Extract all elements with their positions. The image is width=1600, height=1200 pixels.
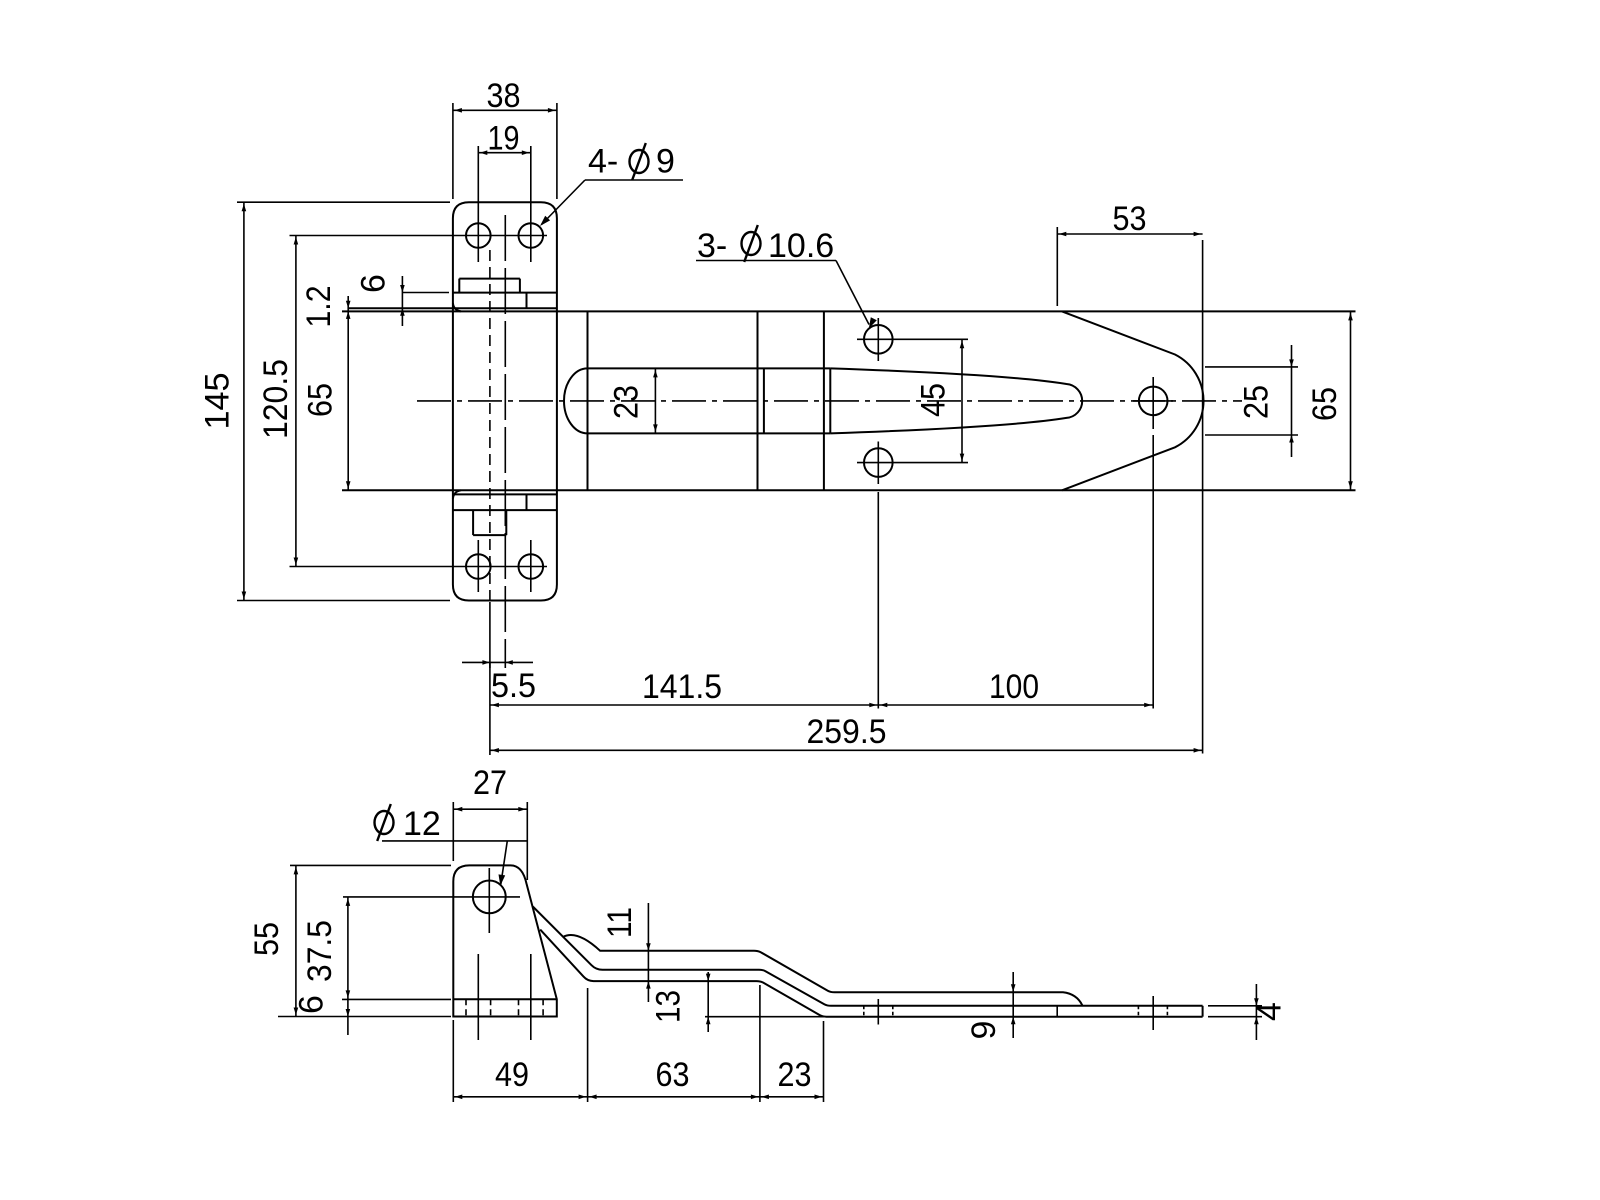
leader arrow phi12	[499, 874, 506, 885]
ext 13 bottom	[705, 1016, 824, 1018]
svg-text:23: 23	[608, 385, 646, 419]
right hole centerline side	[1152, 996, 1154, 1030]
ext line 25 top	[1205, 366, 1298, 368]
strap top edge	[342, 310, 1356, 312]
ext 63/23	[759, 985, 761, 1102]
leader arrow 4-phi9	[540, 216, 550, 226]
dim line 13	[707, 972, 709, 1032]
ext 4 bottom	[1208, 1016, 1262, 1018]
knuckle step right edge	[519, 279, 521, 293]
svg-text:65: 65	[302, 383, 340, 417]
extension for 100 dim	[1152, 435, 1154, 709]
dim line 19	[478, 152, 531, 154]
pin step right edge	[505, 510, 507, 535]
svg-text:120.5: 120.5	[257, 359, 295, 439]
ext 27 left	[452, 802, 454, 861]
ext 55/6 bottom	[278, 1016, 451, 1018]
ext 49/63	[587, 988, 589, 1102]
right hole vertical centerline	[1152, 377, 1154, 429]
dim line 120.5	[295, 236, 297, 567]
right hole horizontal centerline	[1133, 400, 1173, 402]
svg-text:6: 6	[293, 995, 331, 1014]
svg-text:45: 45	[915, 383, 953, 417]
ext 49 left	[452, 1020, 454, 1102]
underline 3-phi10.6	[696, 260, 836, 262]
svg-text:4-: 4-	[588, 143, 618, 181]
dim line 145	[243, 202, 245, 600]
strap hole centerline side	[877, 999, 879, 1025]
dim line 6	[401, 276, 403, 326]
bracket hole (phi12)	[473, 881, 506, 914]
plate hole top-right (phi9)	[519, 223, 544, 248]
leader phi12	[501, 841, 508, 884]
label phi12	[375, 811, 394, 834]
ext line 53/259.5 right	[1202, 240, 1204, 754]
dim line 100	[878, 704, 1153, 706]
strap upper surface profile	[533, 907, 1203, 1006]
dim line 25	[1291, 345, 1293, 457]
svg-text:55: 55	[248, 922, 286, 956]
dim line 4	[1255, 984, 1257, 1040]
hidden hole edge	[465, 999, 467, 1016]
plate vertical centerline	[504, 215, 506, 668]
bend line 1	[587, 311, 589, 490]
leader 3-phi10.6	[836, 261, 869, 325]
svg-text:13: 13	[650, 990, 688, 1023]
rib tapered tip	[830, 368, 1082, 433]
plate hole bottom-right (phi9)	[519, 554, 544, 579]
ext line 6	[402, 292, 449, 294]
rib raised profile	[563, 935, 1082, 1005]
hidden strap hole edge	[892, 1006, 894, 1017]
dim line 55	[295, 865, 297, 1016]
svg-text:12: 12	[403, 805, 441, 843]
knuckle band divider	[526, 293, 528, 309]
ext 55 top	[290, 864, 451, 866]
hole column centerline left bottom	[477, 540, 479, 592]
fillet strap bottom at plate	[453, 490, 461, 498]
hidden hole edge	[542, 999, 544, 1016]
dim line 38	[453, 109, 557, 111]
underline 4-phi9	[585, 179, 683, 181]
lower hole horizontal centerline + 45 ext	[857, 462, 968, 464]
pin step left edge	[472, 510, 474, 535]
ext 27 right	[526, 802, 528, 880]
svg-text:49: 49	[495, 1056, 529, 1094]
strap lower surface profile	[540, 930, 1202, 1017]
butt plate outline	[453, 202, 557, 600]
dim line 9	[1012, 972, 1014, 1038]
svg-text:145: 145	[199, 373, 237, 430]
svg-text:100: 100	[989, 668, 1039, 706]
bottom barrel edge line	[453, 493, 557, 495]
knuckle step left edge	[458, 279, 460, 293]
ext 4 top	[1208, 1005, 1262, 1007]
top hole row centerline + 120.5 extension	[290, 235, 548, 237]
underline phi12	[382, 840, 528, 842]
extension for 141.5/100 dims	[877, 492, 879, 709]
svg-text:5.5: 5.5	[491, 667, 536, 705]
dim line 65 right	[1350, 311, 1352, 490]
pin axis extension for 5.5 dim	[489, 602, 491, 668]
svg-text:19: 19	[488, 120, 520, 158]
dim line 65/1.2	[347, 296, 349, 490]
ext line 38 left	[452, 103, 454, 199]
strap end edge	[1202, 1006, 1204, 1017]
strap bottom edge	[342, 489, 1356, 491]
svg-text:4: 4	[1251, 1002, 1289, 1021]
bend line 2b (rib)	[763, 368, 765, 433]
dim line 23	[654, 368, 656, 433]
svg-text:141.5: 141.5	[642, 668, 722, 706]
bracket flange line	[453, 998, 557, 1000]
rib left rounded end	[564, 368, 588, 433]
strap hole lower (phi10.6)	[864, 448, 893, 477]
ext line 145 bottom	[237, 600, 450, 602]
svg-text:11: 11	[601, 907, 639, 938]
svg-text:6: 6	[355, 274, 393, 293]
svg-text:63: 63	[656, 1056, 690, 1094]
svg-text:53: 53	[1113, 200, 1147, 238]
hidden hole edge	[518, 999, 520, 1016]
dim line 259.5	[490, 749, 1203, 751]
rib end edge hidden	[1056, 1006, 1058, 1017]
dim line 49/63/23	[453, 1096, 823, 1098]
dim line 53	[1057, 233, 1202, 235]
bottom band line	[453, 509, 557, 511]
dim line 5.5	[462, 661, 533, 663]
strap hole right (phi10.6)	[1139, 387, 1168, 416]
flange hole centerline right	[530, 954, 532, 1040]
svg-text:38: 38	[487, 77, 521, 115]
strap hole upper (phi10.6)	[864, 325, 893, 354]
svg-text:10.6: 10.6	[768, 227, 834, 265]
leader arrow 3-phi10.6	[869, 317, 877, 328]
bottom hole row centerline + 120.5 extension	[290, 566, 548, 568]
svg-text:27: 27	[473, 764, 507, 802]
svg-text:9: 9	[656, 143, 675, 181]
main horizontal centerline	[417, 400, 1242, 402]
dim line 141.5	[490, 704, 878, 706]
ext line 38 right	[556, 103, 558, 199]
ext 37.5 bottom / 6 top	[342, 998, 451, 1000]
ext 23 right	[823, 1021, 825, 1102]
dim line 11	[647, 903, 649, 1002]
flange hole centerline left	[477, 954, 479, 1040]
lower strap hole vertical centerline	[877, 442, 879, 485]
leader 4-phi9	[542, 180, 586, 225]
dim line 37.5/6	[347, 897, 349, 1035]
knuckle step top edge	[459, 278, 520, 280]
knuckle band line	[453, 292, 557, 294]
hole column centerline right top	[530, 146, 532, 262]
upper hole horizontal centerline + 45 ext	[857, 338, 968, 340]
svg-text:1.2: 1.2	[300, 286, 338, 328]
barrel edge line with 1.2 extension	[348, 307, 557, 309]
bend line 3	[823, 311, 825, 490]
ext line 145 top	[237, 201, 450, 203]
rib bottom line	[588, 432, 831, 434]
svg-text:23: 23	[778, 1056, 812, 1094]
rib top line	[588, 367, 831, 369]
bracket hole horizontal centerline + 37.5 ext	[343, 896, 520, 898]
hinge pin hidden line	[489, 250, 491, 600]
upper strap hole vertical centerline	[877, 318, 879, 361]
fillet strap top at plate	[453, 303, 461, 311]
svg-text:9: 9	[965, 1021, 1003, 1040]
plate hole top-left (phi9)	[466, 223, 491, 248]
hidden right hole edge	[1166, 1006, 1168, 1017]
hole column centerline right bottom	[530, 540, 532, 592]
hole column centerline left top	[477, 146, 479, 262]
pin step bottom edge	[473, 534, 506, 536]
bottom band divider	[526, 494, 528, 510]
strap tapered nose	[1062, 311, 1204, 490]
svg-text:25: 25	[1238, 385, 1276, 419]
svg-text:37.5: 37.5	[301, 920, 339, 982]
svg-text:259.5: 259.5	[807, 713, 887, 751]
hidden strap hole edge	[863, 1006, 865, 1017]
svg-text:65: 65	[1306, 387, 1344, 421]
ext line 53 left	[1056, 227, 1058, 306]
bend line 2	[757, 311, 759, 490]
bracket outline side view	[453, 865, 557, 1016]
svg-text:3-: 3-	[697, 227, 727, 265]
ext line 25 bottom	[1205, 434, 1298, 436]
hidden hole edge	[490, 999, 492, 1016]
plate hole bottom-left (phi9)	[466, 554, 491, 579]
bracket hole vertical centerline	[488, 868, 490, 933]
ext pin axis lower	[489, 662, 491, 755]
dim line 27	[453, 808, 527, 810]
bend line 3b (rib)	[829, 368, 831, 433]
dim line 45	[961, 339, 963, 462]
hidden right hole edge	[1137, 1006, 1139, 1017]
